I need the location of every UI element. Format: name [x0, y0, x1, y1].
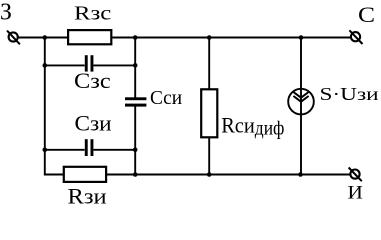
wire left vertical [44, 38, 46, 151]
svg-text:С: С [358, 2, 375, 27]
capacitor Czi [85, 139, 94, 156]
junction Czi left [43, 148, 48, 153]
junction Czi right [133, 148, 138, 153]
resistor Rsi [201, 89, 217, 137]
junction top Rsi [207, 35, 212, 40]
svg-text:Сзи: Сзи [75, 111, 112, 136]
resistor Rzi [64, 167, 106, 182]
svg-text:S·Uзи: S·Uзи [320, 84, 379, 104]
terminal I [349, 168, 362, 182]
capacitor Csi [125, 97, 146, 106]
junction top-left [43, 35, 48, 40]
terminal Z [7, 31, 20, 45]
wire bottom rail [45, 150, 350, 175]
wire Rsi vertical [208, 38, 210, 175]
svg-text:Rзи: Rзи [68, 184, 107, 209]
wire middle vertical [134, 38, 136, 98]
capacitor Czs [85, 55, 94, 71]
junction bottom-mid [133, 172, 138, 177]
wire Czi branch [45, 149, 85, 151]
junction top-mid [133, 35, 138, 40]
junction top source [299, 35, 304, 40]
svg-text:Сси: Сси [150, 87, 182, 109]
svg-text:З: З [0, 0, 12, 26]
wire source vertical [300, 38, 302, 175]
junction bottom source [298, 172, 303, 177]
svg-text:И: И [348, 183, 363, 204]
junction Czs left [43, 63, 48, 68]
resistor Rzs [68, 30, 111, 44]
junction bottom Rsi [207, 172, 212, 177]
junction Czs right [133, 63, 138, 68]
current source U1 S*Uzi [288, 89, 314, 115]
terminal C [349, 30, 362, 44]
wire Czs branch [45, 64, 85, 66]
svg-text:Rзс: Rзс [74, 3, 111, 25]
svg-text:Сзс: Сзс [74, 68, 111, 93]
wire top rail [18, 37, 350, 39]
